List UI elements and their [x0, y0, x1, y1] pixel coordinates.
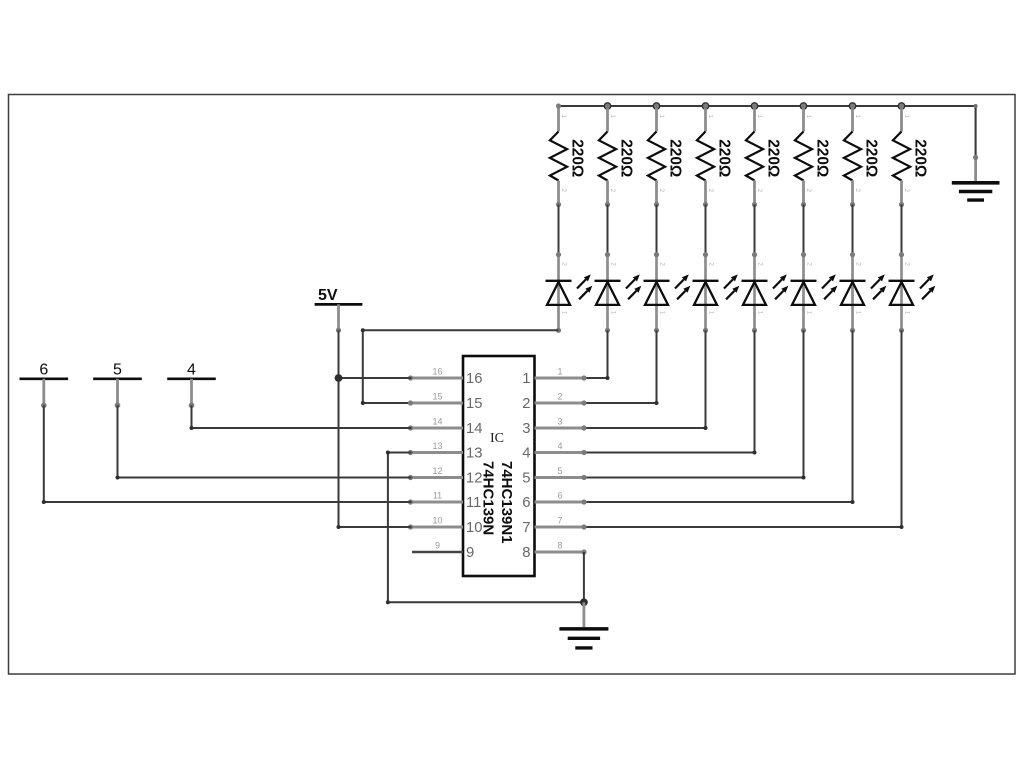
IC pin 16 number labels [432, 367, 482, 388]
svg-text:3: 3 [557, 417, 562, 427]
svg-text:2: 2 [707, 189, 714, 193]
svg-text:9: 9 [466, 545, 474, 561]
svg-text:2: 2 [903, 189, 910, 193]
LED LED6 [791, 252, 838, 333]
IC pin 11 stub (left) [408, 499, 463, 504]
svg-text:2: 2 [560, 189, 567, 193]
junction bus/resistor R2 [604, 102, 612, 110]
svg-text:2: 2 [610, 262, 617, 266]
IC pin 10 number labels [432, 516, 482, 537]
IC pin 9 stub (left, unconnected wire) [412, 551, 463, 554]
LED LED4 [693, 252, 740, 333]
svg-text:2: 2 [708, 262, 715, 266]
svg-text:220Ω: 220Ω [814, 139, 831, 177]
svg-text:2: 2 [609, 189, 616, 193]
wire R8 to LED8 [901, 205, 903, 255]
junction bus/resistor R5 [751, 102, 759, 110]
IC pin 1 stub (right) [535, 375, 587, 380]
svg-text:1: 1 [757, 311, 764, 315]
svg-text:7: 7 [557, 516, 562, 526]
svg-text:2: 2 [658, 189, 665, 193]
IC pin 1 number labels [522, 367, 562, 388]
svg-text:1: 1 [561, 311, 568, 315]
resistor R1 220 ohm [550, 103, 586, 207]
LED LED8 [889, 252, 936, 333]
pin header 5 [93, 361, 142, 408]
svg-text:8: 8 [522, 545, 530, 561]
pin header 4 [167, 361, 216, 408]
svg-text:1: 1 [854, 115, 861, 119]
resistor R2 220 ohm [599, 103, 635, 207]
IC pin 3 stub (right) [535, 425, 587, 430]
svg-text:74HC139N174HC139N: 74HC139N174HC139N [480, 461, 515, 544]
svg-text:10: 10 [432, 516, 442, 526]
IC pin 4 stub (right) [535, 450, 587, 455]
svg-text:IC: IC [490, 431, 504, 446]
IC pin 5 stub (right) [535, 475, 587, 480]
svg-text:1: 1 [560, 115, 567, 119]
svg-text:2: 2 [757, 262, 764, 266]
wire LED5 to IC pin 4 [584, 330, 757, 454]
junction 5V / pin16 [335, 374, 343, 382]
resistor R4 220 ohm [697, 103, 733, 207]
svg-text:6: 6 [557, 491, 562, 501]
IC pin 4 number labels [522, 441, 562, 462]
svg-text:2: 2 [561, 262, 568, 266]
wire IC pin 13 to ground [386, 451, 584, 605]
IC pin 9 number labels [435, 541, 474, 562]
svg-text:1: 1 [903, 115, 910, 119]
LED LED2 [595, 252, 642, 333]
svg-text:1: 1 [904, 311, 911, 315]
svg-text:11: 11 [433, 491, 442, 501]
svg-text:12: 12 [432, 466, 442, 476]
resistor R8 220 ohm [893, 103, 929, 207]
svg-text:2: 2 [855, 262, 862, 266]
wire R5 to LED5 [754, 205, 756, 255]
resistor R7 220 ohm [844, 103, 880, 207]
LED LED1 [546, 252, 593, 333]
svg-text:2: 2 [522, 396, 530, 412]
svg-text:220Ω: 220Ω [716, 139, 733, 177]
junction bus/resistor R8 [898, 102, 906, 110]
wire R2 to LED2 [607, 205, 609, 255]
IC pin 3 number labels [522, 417, 562, 438]
IC pin 11 number labels [433, 491, 482, 512]
svg-text:5V: 5V [318, 287, 338, 304]
wire LED7 to IC pin 6 [584, 330, 855, 504]
IC pin 15 number labels [432, 392, 482, 413]
wire LED4 to IC pin 3 [584, 330, 708, 430]
wire header 6 to IC [42, 405, 412, 504]
junction ground node [580, 598, 588, 606]
svg-text:14: 14 [466, 421, 482, 437]
junction bus/resistor R4 [702, 102, 710, 110]
svg-text:2: 2 [805, 189, 812, 193]
svg-text:15: 15 [432, 392, 442, 402]
LED LED7 [840, 252, 887, 333]
svg-text:7: 7 [522, 520, 530, 536]
svg-text:14: 14 [432, 417, 442, 427]
svg-text:2: 2 [854, 189, 861, 193]
IC pin 12 stub (left) [408, 475, 463, 480]
svg-text:1: 1 [805, 115, 812, 119]
op IC U1 74HC139N body [463, 356, 535, 576]
svg-text:2: 2 [557, 392, 562, 402]
svg-text:220Ω: 220Ω [863, 139, 880, 177]
junction bus/resistor R7 [849, 102, 857, 110]
svg-text:1: 1 [557, 367, 562, 377]
wire R1 to LED1 [558, 205, 560, 255]
svg-text:16: 16 [432, 367, 442, 377]
svg-text:2: 2 [756, 189, 763, 193]
junction bus/resistor R6 [800, 102, 808, 110]
IC pin 16 stub (left) [408, 375, 463, 380]
IC pin 5 number labels [522, 466, 562, 487]
svg-text:1: 1 [659, 311, 666, 315]
wire 5V to IC pin 16 and pin 10 [337, 330, 412, 529]
wire R7 to LED7 [852, 205, 854, 255]
IC pin 7 stub (right) [535, 524, 587, 529]
IC pin 14 stub (left) [408, 425, 463, 430]
IC pin 13 number labels [432, 441, 482, 462]
IC pin 2 stub (right) [535, 400, 587, 405]
svg-text:6: 6 [39, 361, 48, 378]
IC pin 6 number labels [522, 491, 562, 512]
svg-text:1: 1 [707, 115, 714, 119]
IC pin 10 stub (left) [408, 524, 463, 529]
svg-text:1: 1 [855, 311, 862, 315]
junction bus/resistor R3 [653, 102, 661, 110]
IC pin 14 number labels [432, 417, 482, 438]
ground symbol GND2 (below IC) [559, 602, 608, 648]
IC pin 6 stub (right) [535, 499, 587, 504]
svg-text:13: 13 [432, 441, 442, 451]
wire LED6 to IC pin 5 [584, 330, 806, 479]
IC pin 8 stub (right) [535, 549, 587, 554]
wire R3 to LED3 [656, 205, 658, 255]
IC pin 15 stub (left) [408, 400, 463, 405]
svg-text:2: 2 [904, 262, 911, 266]
svg-text:12: 12 [466, 471, 482, 487]
svg-text:15: 15 [466, 396, 482, 412]
svg-text:3: 3 [522, 421, 530, 437]
svg-text:4: 4 [522, 446, 530, 462]
resistor R5 220 ohm [746, 103, 782, 207]
IC pin 12 number labels [432, 466, 482, 487]
svg-text:1: 1 [610, 311, 617, 315]
svg-text:11: 11 [466, 495, 481, 511]
wire top bus to right ground [559, 104, 978, 158]
svg-text:1: 1 [658, 115, 665, 119]
svg-text:5: 5 [113, 361, 122, 378]
svg-text:5: 5 [557, 466, 562, 476]
IC pin 2 number labels [522, 392, 562, 413]
svg-text:5: 5 [522, 471, 530, 487]
pin header 6 [20, 361, 69, 408]
wire LED3 to IC pin 2 [584, 330, 659, 405]
svg-text:220Ω: 220Ω [667, 139, 684, 177]
IC pin 8 number labels [522, 541, 562, 562]
svg-text:1: 1 [609, 115, 616, 119]
svg-text:6: 6 [522, 495, 530, 511]
svg-text:9: 9 [435, 541, 440, 551]
wire R4 to LED4 [705, 205, 707, 255]
svg-text:13: 13 [466, 446, 482, 462]
power symbol 5V [315, 287, 363, 333]
wire IC pin 8 to ground [583, 552, 585, 602]
ground symbol GND1 (top right) [952, 155, 1000, 200]
svg-text:220Ω: 220Ω [912, 139, 929, 177]
svg-text:4: 4 [187, 361, 196, 378]
svg-text:220Ω: 220Ω [765, 139, 782, 177]
LED LED3 [644, 252, 691, 333]
svg-text:8: 8 [557, 541, 562, 551]
schematic border frame [9, 95, 1016, 675]
svg-text:4: 4 [557, 441, 562, 451]
resistor R3 220 ohm [648, 103, 684, 207]
svg-text:1: 1 [806, 311, 813, 315]
svg-text:1: 1 [756, 115, 763, 119]
wire LED2 to IC pin 1 [584, 330, 610, 380]
wire LED8 to IC pin 7 [584, 330, 904, 529]
svg-text:10: 10 [466, 520, 482, 536]
IC pin 13 stub (left) [408, 450, 463, 455]
wire R6 to LED6 [803, 205, 805, 255]
wire LED1 to IC pin 15 (via left loop) [361, 328, 559, 405]
svg-text:2: 2 [659, 262, 666, 266]
resistor R6 220 ohm [795, 103, 831, 207]
svg-text:1: 1 [708, 311, 715, 315]
wire header 4 to IC [190, 405, 412, 430]
LED LED5 [742, 252, 789, 333]
svg-text:1: 1 [522, 371, 530, 387]
wire header 5 to IC [116, 405, 412, 479]
IC pin 7 number labels [522, 516, 562, 537]
svg-text:16: 16 [466, 371, 482, 387]
svg-text:220Ω: 220Ω [618, 139, 635, 177]
svg-text:2: 2 [806, 262, 813, 266]
svg-text:220Ω: 220Ω [569, 139, 586, 177]
